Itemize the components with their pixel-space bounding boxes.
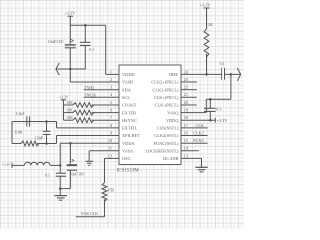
svg-text:FUNC(SSTL): FUNC(SSTL) [154,141,179,146]
svg-text:VSSA: VSSA [122,149,134,154]
svg-text:COAST: COAST [122,103,137,108]
svg-text:9: 9 [110,130,112,135]
svg-text:VSSQ: VSSQ [167,110,179,115]
svg-text:10K: 10K [66,108,73,112]
svg-text:I2CADR: I2CADR [163,156,179,161]
svg-text:21: 21 [184,92,188,97]
svg-text:19: 19 [184,108,188,113]
svg-text:2K: 2K [208,22,213,27]
svg-text:0.1: 0.1 [220,61,225,66]
svg-text:22: 22 [184,85,188,90]
svg-text:LOCKREF(SSTL): LOCKREF(SSTL) [145,149,179,154]
svg-text:1: 1 [110,69,112,74]
svg-text:HSYNC: HSYNC [122,118,137,123]
svg-text:7: 7 [110,115,112,120]
svg-text:12: 12 [108,153,112,158]
svg-text:FUNC: FUNC [193,138,204,143]
svg-text:CLK(SSTL): CLK(SSTL) [157,126,179,131]
svg-text:VSSD: VSSD [122,80,133,85]
svg-text:OSC: OSC [122,156,131,161]
svg-text:10uF/16V: 10uF/16V [48,40,64,44]
svg-text:13: 13 [184,153,188,158]
svg-text:17: 17 [184,123,188,128]
svg-text:11: 11 [108,146,112,151]
svg-text:5: 5 [110,100,112,105]
svg-text:8: 8 [110,123,112,128]
svg-text:+3.3V: +3.3V [65,11,76,16]
svg-text:10: 10 [108,138,112,143]
svg-text:15: 15 [184,138,188,143]
svg-text:0.1: 0.1 [89,48,94,52]
svg-text:+3.3V: +3.3V [217,118,229,123]
svg-text:6.8K: 6.8K [15,129,23,134]
svg-text:CLK2(SSTL): CLK2(SSTL) [154,133,179,138]
svg-text:16: 16 [184,130,188,135]
svg-text:EXTFIL: EXTFIL [122,126,137,131]
svg-text:VDDA: VDDA [122,141,136,146]
svg-text:IREF: IREF [169,72,179,77]
svg-text:CLK: CLK [196,123,204,128]
svg-text:6: 6 [110,108,112,113]
svg-text:EXTFB: EXTFB [122,110,136,115]
svg-text:VDDD: VDDD [122,72,135,77]
svg-text:+3.3V: +3.3V [59,95,69,99]
svg-text:CLK-(PECL): CLK-(PECL) [155,103,179,108]
svg-text:XFILRET: XFILRET [122,133,140,138]
svg-text:150P: 150P [35,136,44,141]
svg-text:TWCK: TWCK [84,92,96,97]
svg-text:VDDQ: VDDQ [166,118,180,123]
svg-text:23: 23 [184,77,188,82]
svg-text:10K: 10K [66,116,73,120]
svg-text:SCL: SCL [122,95,130,100]
svg-text:CLK+(PECL): CLK+(PECL) [154,95,179,100]
svg-text:18: 18 [184,115,188,120]
svg-text:10uF/16V: 10uF/16V [70,172,85,176]
svg-text:CLK2+(PECL): CLK2+(PECL) [151,80,179,85]
svg-text:3.3nF: 3.3nF [15,111,25,116]
svg-text:10K: 10K [66,101,73,105]
svg-text:ICS1523M: ICS1523M [117,169,140,174]
svg-text:20: 20 [184,100,188,105]
svg-text:+3.3V: +3.3V [2,163,11,167]
svg-text:0.1: 0.1 [45,173,50,177]
svg-text:N/M CLK: N/M CLK [81,211,98,216]
svg-text:SDA: SDA [122,87,132,92]
svg-text:2: 2 [110,77,112,82]
svg-text:CLK2-(PECL): CLK2-(PECL) [152,87,179,92]
svg-text:CLK2: CLK2 [193,130,203,135]
svg-text:0.1: 0.1 [216,107,221,112]
svg-text:+3.3V: +3.3V [200,3,211,8]
svg-text:TWD: TWD [85,85,95,90]
svg-text:3: 3 [110,85,112,90]
svg-text:47R: 47R [107,187,114,192]
